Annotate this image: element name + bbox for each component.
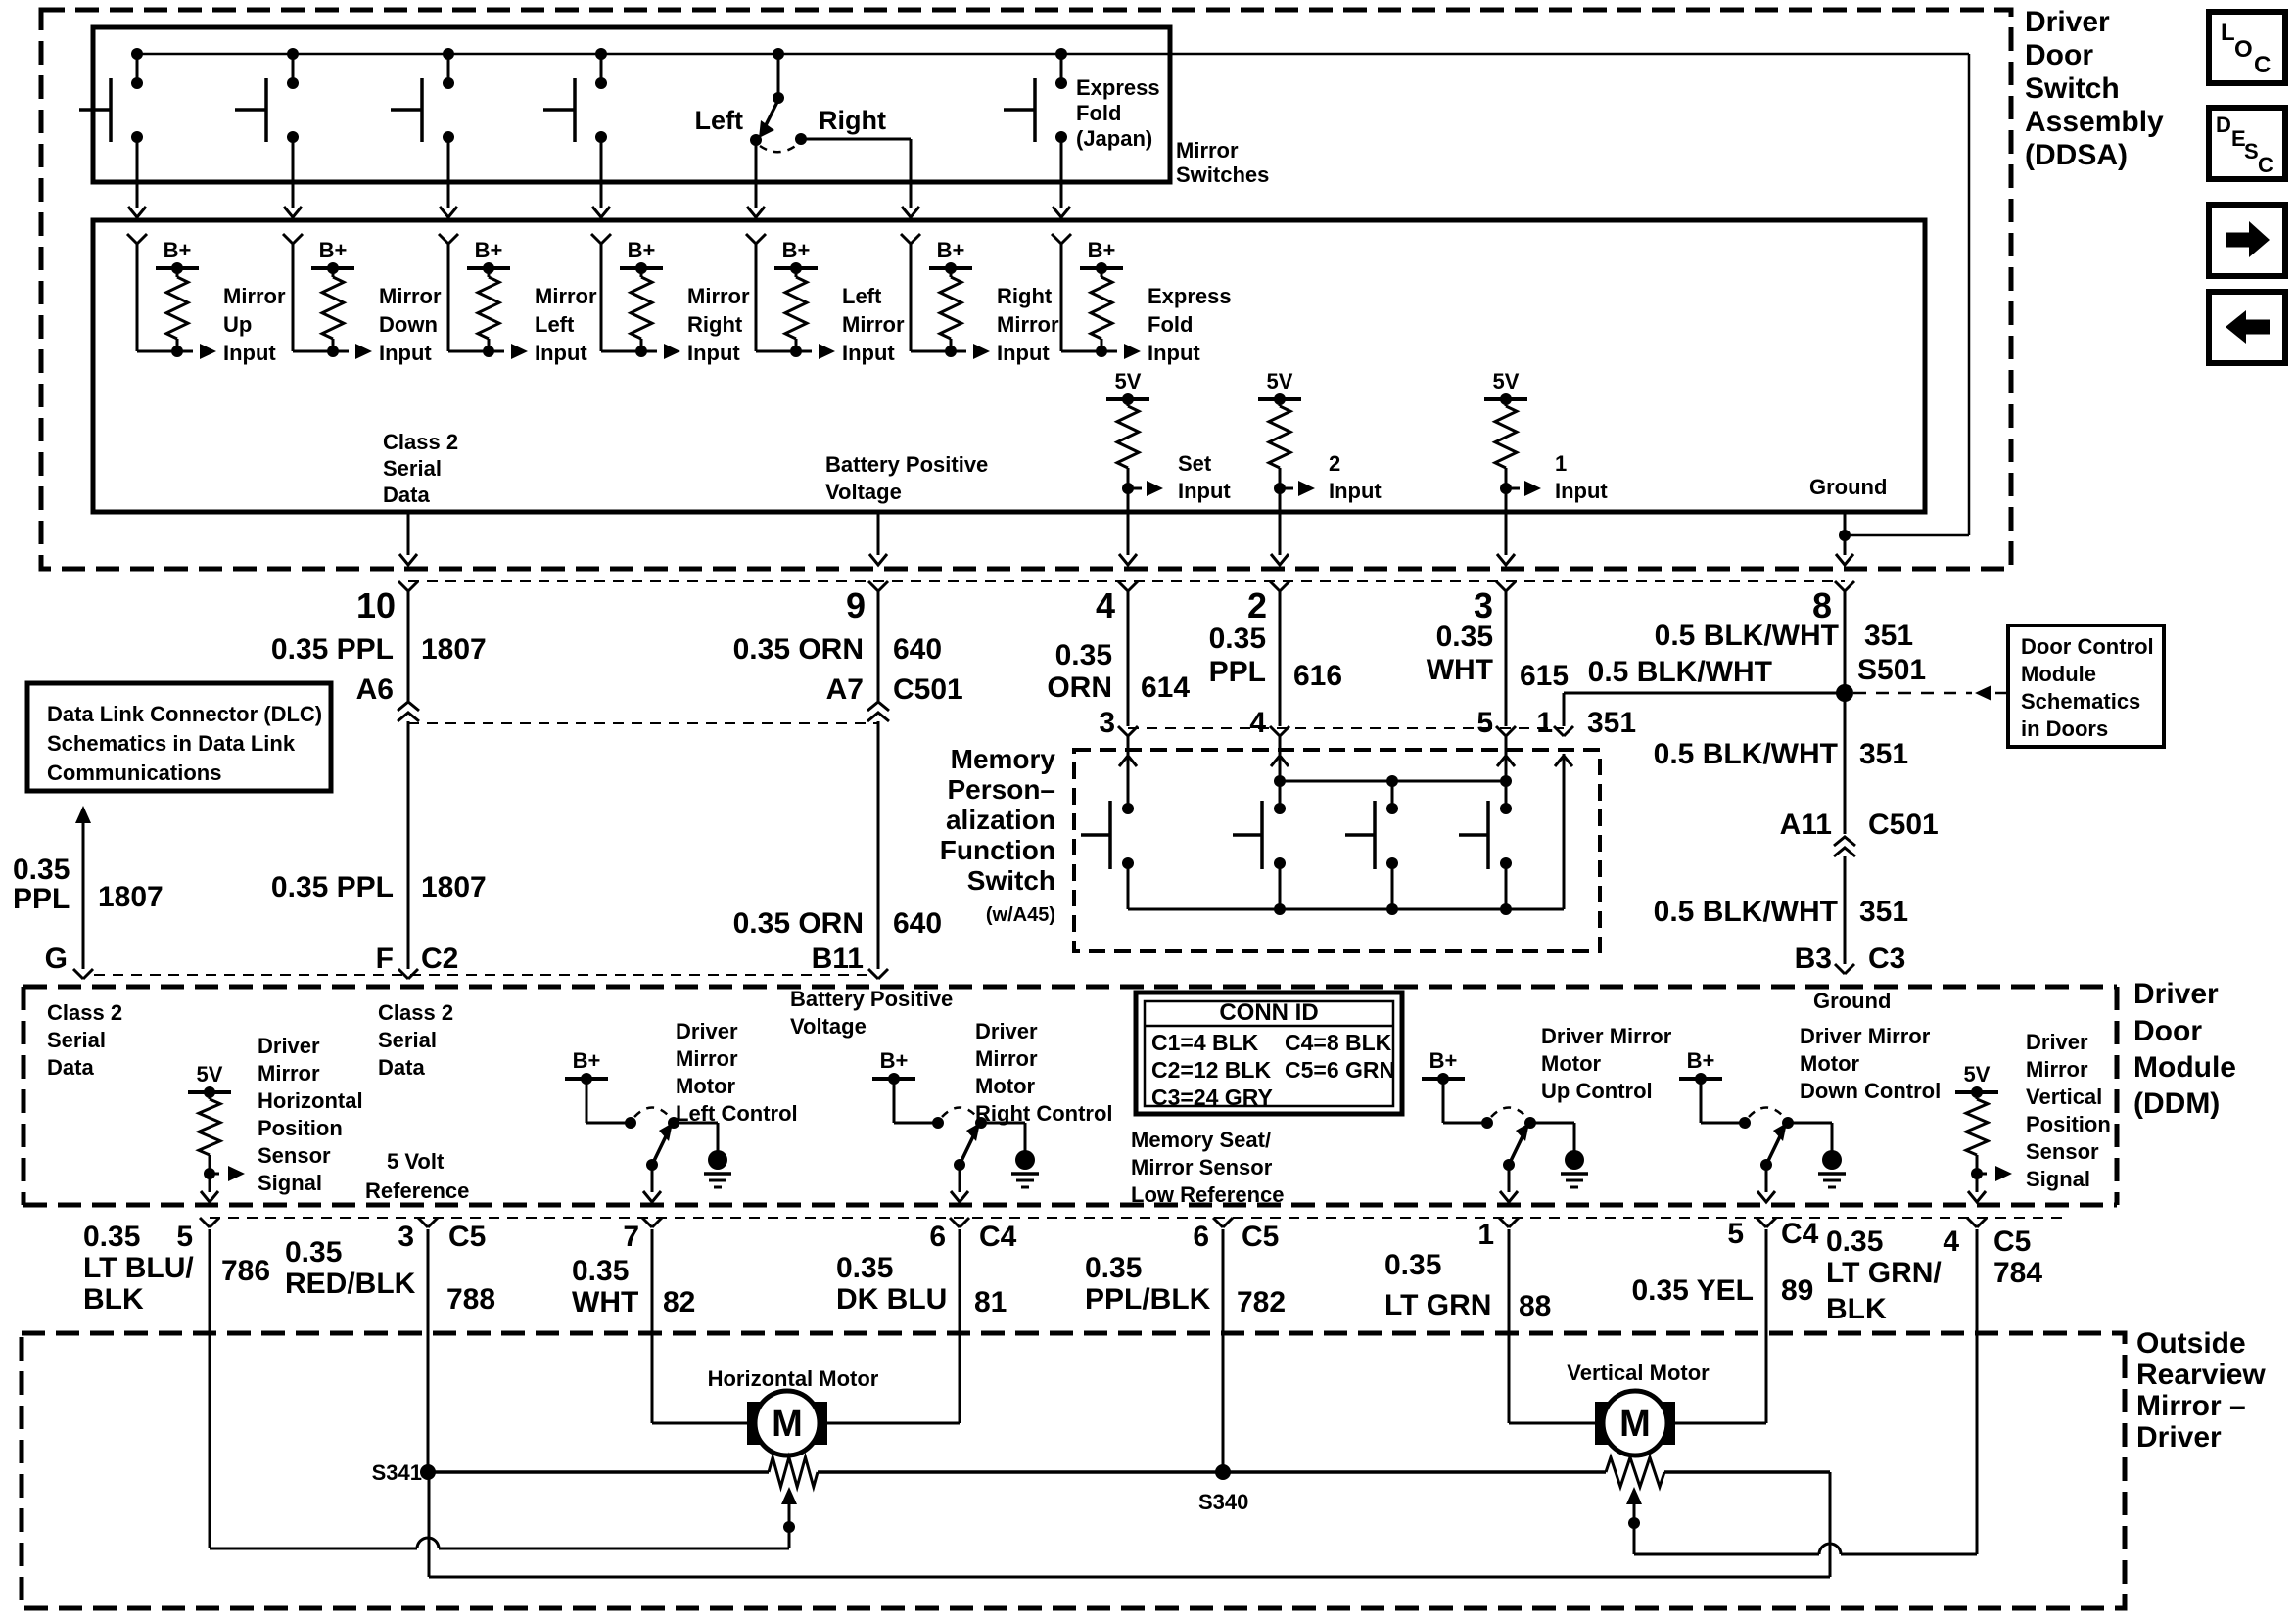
reference loop right leg bbox=[1829, 1472, 1832, 1577]
svg-text:3: 3 bbox=[1099, 707, 1115, 739]
C501 pin connector at x=1152 bbox=[1118, 726, 1138, 736]
LOC icon bbox=[2209, 12, 2285, 83]
svg-text:Mirror: Mirror bbox=[975, 1046, 1038, 1071]
svg-text:Input: Input bbox=[379, 341, 432, 365]
svg-text:Input: Input bbox=[1178, 479, 1231, 503]
svg-text:2: 2 bbox=[1329, 451, 1340, 476]
svg-text:PPL/BLK: PPL/BLK bbox=[1085, 1283, 1211, 1316]
wire 88 labels bbox=[1384, 1219, 1551, 1322]
ground wire 351 upper segment bbox=[1844, 591, 1847, 693]
wire 82 labels bbox=[572, 1221, 695, 1318]
Right Mirror Input label bbox=[997, 284, 1059, 365]
svg-text:9: 9 bbox=[846, 585, 866, 625]
splice S501 bbox=[1836, 684, 1853, 702]
svg-text:7: 7 bbox=[623, 1221, 639, 1253]
svg-text:RED/BLK: RED/BLK bbox=[285, 1268, 416, 1300]
CONN ID rows bbox=[1151, 1030, 1395, 1110]
Outside Rearview Mirror dashed boundary bbox=[22, 1333, 2125, 1608]
svg-text:10: 10 bbox=[356, 585, 396, 625]
Battery Positive Voltage label (DDM) bbox=[790, 987, 953, 1039]
svg-text:Class 2: Class 2 bbox=[383, 430, 458, 454]
reference loop left leg bbox=[428, 1472, 431, 1577]
svg-text:0.35: 0.35 bbox=[13, 854, 70, 886]
svg-text:616: 616 bbox=[1293, 660, 1342, 692]
wire 640 lower segment bbox=[877, 721, 880, 969]
svg-text:Right Control: Right Control bbox=[975, 1101, 1113, 1126]
svg-text:B+: B+ bbox=[880, 1048, 909, 1073]
mirror switch S1 (momentary) bbox=[79, 48, 146, 217]
Ground label (DDM) bbox=[1813, 989, 1891, 1013]
memory switch riser 614 bbox=[1127, 736, 1130, 808]
svg-text:786: 786 bbox=[221, 1255, 270, 1287]
svg-text:C4=8 BLK: C4=8 BLK bbox=[1285, 1030, 1392, 1055]
5V pull-up resistor Set input bbox=[1106, 369, 1163, 565]
svg-text:Battery Positive: Battery Positive bbox=[790, 987, 953, 1011]
svg-text:Left: Left bbox=[842, 284, 882, 308]
svg-text:5V: 5V bbox=[197, 1062, 223, 1086]
A6 label bbox=[356, 673, 394, 706]
C3 pin connector bbox=[1835, 964, 1854, 974]
0.35 ORN 640 label (upper) bbox=[733, 633, 942, 666]
DDSA pin 10 bbox=[356, 581, 418, 625]
pull-up resistor input column Right Mirror bbox=[901, 234, 990, 359]
svg-text:351: 351 bbox=[1859, 896, 1908, 928]
svg-text:Driver Mirror: Driver Mirror bbox=[1541, 1024, 1672, 1048]
svg-text:WHT: WHT bbox=[1427, 654, 1493, 686]
svg-text:Data: Data bbox=[378, 1055, 425, 1080]
DDM pin connector at x=437 bbox=[418, 1218, 438, 1227]
svg-text:351: 351 bbox=[1864, 620, 1913, 652]
svg-text:Class 2: Class 2 bbox=[47, 1000, 122, 1025]
svg-text:Right: Right bbox=[687, 312, 743, 337]
svg-text:Position: Position bbox=[258, 1116, 343, 1140]
wire 786 pin label bbox=[176, 1221, 193, 1253]
svg-text:Driver: Driver bbox=[2133, 978, 2219, 1010]
svg-text:4: 4 bbox=[1096, 585, 1115, 625]
Driver Mirror Motor Up Control label bbox=[1541, 1024, 1672, 1103]
DDM pin connector at x=214 bbox=[200, 1218, 219, 1227]
svg-text:Input: Input bbox=[223, 341, 276, 365]
DDSA label bbox=[2025, 6, 2164, 171]
svg-text:LT GRN/: LT GRN/ bbox=[1826, 1257, 1942, 1289]
driver mirror motor down control switch bbox=[1679, 1048, 1846, 1202]
C501 dashed connector line (left) bbox=[408, 722, 878, 724]
C501 inline connector A11 bbox=[1834, 837, 1855, 856]
svg-text:Vertical Motor: Vertical Motor bbox=[1567, 1361, 1710, 1385]
2 Input label bbox=[1329, 451, 1382, 503]
svg-text:351: 351 bbox=[1587, 707, 1636, 739]
wire 614 segment bbox=[1127, 591, 1130, 726]
svg-text:782: 782 bbox=[1237, 1286, 1286, 1318]
Memory Personalization Function Switch label bbox=[940, 744, 1056, 926]
svg-text:C2: C2 bbox=[421, 943, 458, 975]
C501 inline connector A7 bbox=[867, 702, 889, 721]
wire 784 run bbox=[1634, 1229, 1977, 1554]
svg-text:1: 1 bbox=[1555, 451, 1567, 476]
svg-text:(DDM): (DDM) bbox=[2133, 1087, 2220, 1120]
memory bottom bus bbox=[1128, 903, 1564, 915]
memory pushbutton switch M3 bbox=[1345, 801, 1398, 909]
C501 pin connector at x=1597 bbox=[1554, 726, 1573, 736]
wire 788 run bbox=[427, 1229, 430, 1472]
svg-text:Driver: Driver bbox=[258, 1034, 320, 1058]
express fold switch bbox=[1004, 48, 1070, 217]
svg-text:C2=12 BLK: C2=12 BLK bbox=[1151, 1057, 1271, 1083]
B11 label bbox=[812, 943, 864, 975]
pull-up resistor input column Mirror Left bbox=[439, 234, 528, 359]
0.35 ORN 640 label (lower) bbox=[733, 907, 942, 940]
svg-text:5: 5 bbox=[1476, 707, 1493, 739]
svg-text:615: 615 bbox=[1520, 660, 1569, 692]
svg-text:Right: Right bbox=[819, 106, 886, 135]
svg-text:O: O bbox=[2234, 36, 2253, 63]
pin 5 label C501 bbox=[1476, 707, 1493, 739]
svg-text:CONN ID: CONN ID bbox=[1219, 999, 1318, 1026]
svg-text:3: 3 bbox=[1474, 585, 1493, 625]
DDM pin connector at x=2019 bbox=[1967, 1218, 1987, 1227]
Left label bbox=[695, 106, 744, 135]
svg-text:Door Control: Door Control bbox=[2021, 634, 2154, 659]
svg-text:Low Reference: Low Reference bbox=[1131, 1182, 1285, 1207]
svg-text:G: G bbox=[45, 943, 68, 975]
svg-text:Mirror –: Mirror – bbox=[2136, 1390, 2246, 1422]
DDM pin connector at x=1249 bbox=[1213, 1218, 1233, 1227]
svg-text:1807: 1807 bbox=[98, 881, 164, 913]
driver mirror motor right control switch bbox=[872, 1048, 1039, 1202]
svg-text:Sensor: Sensor bbox=[258, 1143, 331, 1168]
Set Input label bbox=[1178, 451, 1231, 503]
svg-text:WHT: WHT bbox=[572, 1286, 638, 1318]
svg-text:Express: Express bbox=[1148, 284, 1232, 308]
svg-text:Motor: Motor bbox=[975, 1074, 1036, 1098]
svg-text:DK BLU: DK BLU bbox=[836, 1283, 947, 1316]
svg-text:PPL: PPL bbox=[1209, 656, 1266, 688]
wire 782 run bbox=[1222, 1229, 1225, 1472]
Driver Door Module dashed boundary top bbox=[23, 985, 2117, 990]
svg-text:Schematics: Schematics bbox=[2021, 689, 2140, 714]
0.35 PPL 1807 label (lower) bbox=[271, 871, 487, 903]
F pin connector bbox=[398, 969, 418, 979]
svg-text:640: 640 bbox=[893, 907, 942, 940]
svg-text:1807: 1807 bbox=[421, 633, 487, 666]
memory pushbutton switch M1 bbox=[1081, 801, 1134, 909]
forward arrow icon bbox=[2209, 205, 2285, 276]
svg-text:Memory Seat/: Memory Seat/ bbox=[1131, 1128, 1271, 1152]
ground wire 351 mid segment bbox=[1844, 693, 1847, 834]
svg-text:0.35: 0.35 bbox=[1209, 623, 1266, 655]
svg-text:C5: C5 bbox=[448, 1221, 486, 1253]
DDSA connector face dashed line bbox=[408, 580, 1845, 582]
svg-text:Input: Input bbox=[535, 341, 587, 365]
svg-text:Horizontal Motor: Horizontal Motor bbox=[708, 1366, 879, 1391]
DDM pin connector at x=980 bbox=[950, 1218, 969, 1227]
pull-up resistor input column Left Mirror bbox=[746, 234, 835, 359]
svg-text:Sensor: Sensor bbox=[2026, 1139, 2099, 1164]
Class 2 Serial Data label (DDM left) bbox=[47, 1000, 122, 1080]
svg-text:B+: B+ bbox=[937, 238, 965, 262]
Driver Door Switch Assembly (DDSA) dashed boundary bbox=[41, 10, 2011, 569]
horizontal position pot bbox=[769, 1457, 818, 1487]
hop over reference loop bbox=[1819, 1544, 1841, 1554]
svg-text:Driver: Driver bbox=[975, 1019, 1038, 1043]
CONN ID title bbox=[1219, 999, 1318, 1026]
svg-text:L: L bbox=[2221, 20, 2235, 46]
svg-text:Mirror: Mirror bbox=[2026, 1057, 2088, 1082]
CONN ID box bbox=[1136, 993, 1402, 1114]
svg-text:0.35: 0.35 bbox=[285, 1236, 342, 1269]
Express Fold Input label bbox=[1148, 284, 1232, 365]
svg-text:B11: B11 bbox=[812, 943, 864, 975]
1 Input label bbox=[1555, 451, 1608, 503]
memory top bus bbox=[1274, 775, 1512, 787]
svg-text:C5: C5 bbox=[1242, 1221, 1279, 1253]
svg-text:Ground: Ground bbox=[1813, 989, 1891, 1013]
memory pushbutton switch M2 bbox=[1233, 801, 1286, 909]
svg-text:C4: C4 bbox=[1781, 1218, 1819, 1250]
svg-text:Left: Left bbox=[695, 106, 744, 135]
svg-text:6: 6 bbox=[929, 1221, 946, 1253]
class 2 serial data pin wire bbox=[399, 512, 417, 565]
Mirror Switches box bbox=[93, 27, 1170, 182]
svg-text:1: 1 bbox=[1536, 707, 1553, 739]
0.35 PPL 1807 label (DLC) bbox=[13, 854, 164, 915]
C501 dashed connector line (pins 3-1) bbox=[1128, 727, 1564, 729]
Door Control Module Schematics in Doors text bbox=[2021, 634, 2154, 741]
5V pull-up resistor 2 input bbox=[1258, 369, 1315, 565]
Driver Mirror Horizontal Position Sensor Signal label bbox=[258, 1034, 363, 1195]
svg-text:Signal: Signal bbox=[2026, 1167, 2090, 1191]
svg-text:Module: Module bbox=[2021, 662, 2096, 686]
Battery Positive Voltage label (DDSA) bbox=[825, 452, 988, 504]
ground pin wire bbox=[1836, 510, 1853, 565]
svg-text:Down: Down bbox=[379, 312, 438, 337]
svg-text:Left Control: Left Control bbox=[676, 1101, 798, 1126]
svg-text:88: 88 bbox=[1519, 1290, 1551, 1322]
pull-up resistor input column Mirror Up bbox=[127, 234, 216, 359]
svg-text:Communications: Communications bbox=[47, 761, 221, 785]
0.35 PPL 1807 label (upper) bbox=[271, 633, 487, 666]
svg-text:Up: Up bbox=[223, 312, 252, 337]
svg-text:C: C bbox=[2258, 153, 2273, 177]
mirror switch S3 (momentary) bbox=[391, 48, 457, 217]
svg-text:Input: Input bbox=[687, 341, 740, 365]
svg-text:Mirror: Mirror bbox=[997, 312, 1059, 337]
svg-text:BLK: BLK bbox=[1826, 1293, 1887, 1325]
svg-text:C3: C3 bbox=[1868, 943, 1905, 975]
wire 88 run bbox=[1509, 1229, 1596, 1423]
svg-text:Up Control: Up Control bbox=[1541, 1079, 1653, 1103]
svg-text:5V: 5V bbox=[1115, 369, 1142, 393]
svg-text:B+: B+ bbox=[782, 238, 811, 262]
Memory Seat Mirror Sensor Low Reference label bbox=[1131, 1128, 1285, 1207]
svg-text:0.35: 0.35 bbox=[1826, 1225, 1883, 1258]
svg-text:Right: Right bbox=[997, 284, 1053, 308]
svg-text:C5=6 GRN: C5=6 GRN bbox=[1285, 1057, 1395, 1083]
svg-text:Rearview: Rearview bbox=[2136, 1359, 2266, 1391]
svg-text:Vertical: Vertical bbox=[2026, 1085, 2102, 1109]
svg-text:M: M bbox=[1619, 1404, 1651, 1445]
svg-text:C3=24 GRY: C3=24 GRY bbox=[1151, 1085, 1273, 1110]
svg-text:Motor: Motor bbox=[676, 1074, 736, 1098]
svg-text:2: 2 bbox=[1247, 585, 1267, 625]
svg-text:B+: B+ bbox=[1088, 238, 1116, 262]
right-position wire bbox=[801, 139, 919, 217]
0.35 PPL 616 label bbox=[1209, 623, 1342, 692]
horizontal pot wiper bbox=[781, 1487, 797, 1548]
svg-text:ORN: ORN bbox=[1047, 671, 1112, 704]
svg-text:S501: S501 bbox=[1857, 654, 1926, 686]
5 Volt Reference label bbox=[365, 1149, 469, 1203]
svg-text:Ground: Ground bbox=[1809, 475, 1887, 499]
A11 C501 labels bbox=[1780, 808, 1939, 841]
Mirror Switches label bbox=[1176, 138, 1269, 187]
svg-text:1807: 1807 bbox=[421, 871, 487, 903]
horizontal motor bbox=[747, 1391, 827, 1455]
door control module pointer bbox=[1853, 685, 2008, 701]
svg-text:Switches: Switches bbox=[1176, 162, 1269, 187]
wire 615 segment bbox=[1505, 591, 1508, 726]
DESC icon bbox=[2209, 108, 2285, 179]
DDSA pin 8 bbox=[1812, 581, 1854, 625]
svg-text:0.35: 0.35 bbox=[836, 1252, 893, 1284]
Mirror Down Input label bbox=[379, 284, 442, 365]
Mirror Right Input label bbox=[687, 284, 750, 365]
Left Mirror Input label bbox=[842, 284, 905, 365]
0.5 BLK/WHT 351 label (mid) bbox=[1654, 738, 1908, 770]
5V pull-up resistor 1 input bbox=[1484, 369, 1541, 565]
svg-text:Mirror: Mirror bbox=[676, 1046, 738, 1071]
svg-text:Driver: Driver bbox=[2026, 1030, 2088, 1054]
svg-text:Schematics in Data Link: Schematics in Data Link bbox=[47, 731, 296, 756]
svg-text:Function: Function bbox=[940, 835, 1055, 865]
bus riser to ground junction bbox=[1968, 54, 1971, 535]
svg-text:Serial: Serial bbox=[378, 1028, 437, 1052]
svg-text:3: 3 bbox=[398, 1221, 414, 1253]
DDM label bbox=[2133, 978, 2236, 1120]
vertical pot wiper bbox=[1626, 1487, 1642, 1554]
svg-text:Serial: Serial bbox=[383, 456, 442, 481]
Outside Rearview Mirror label bbox=[2136, 1327, 2266, 1454]
svg-text:5 Volt: 5 Volt bbox=[387, 1149, 445, 1174]
svg-text:Door: Door bbox=[2025, 39, 2093, 71]
Class 2 Serial Data label (DDSA) bbox=[383, 430, 458, 507]
wire 81 labels bbox=[836, 1221, 1017, 1318]
svg-text:Horizontal: Horizontal bbox=[258, 1088, 363, 1113]
svg-text:Outside: Outside bbox=[2136, 1327, 2246, 1360]
memory switch riser 615 bbox=[1505, 736, 1508, 781]
svg-text:Mirror: Mirror bbox=[687, 284, 750, 308]
svg-text:Mirror: Mirror bbox=[258, 1061, 320, 1086]
DDM connector face dashed line bbox=[210, 1217, 2066, 1219]
vertical motor bbox=[1595, 1391, 1675, 1455]
left/right selector switch bbox=[747, 48, 807, 217]
splice S341 bbox=[372, 1460, 436, 1485]
svg-text:C5: C5 bbox=[1993, 1225, 2031, 1258]
svg-text:0.35 PPL: 0.35 PPL bbox=[271, 633, 394, 666]
G label bbox=[45, 943, 68, 975]
svg-text:Mirror: Mirror bbox=[842, 312, 905, 337]
switch common bus wire bbox=[136, 53, 1969, 56]
pin 3 label C501 bbox=[1099, 707, 1115, 739]
G pin connector bbox=[73, 969, 93, 979]
svg-text:Mirror: Mirror bbox=[223, 284, 286, 308]
pin 4 label C501 bbox=[1249, 707, 1266, 739]
svg-text:D: D bbox=[2216, 113, 2231, 137]
svg-text:Reference: Reference bbox=[365, 1178, 469, 1203]
svg-text:1: 1 bbox=[1477, 1219, 1494, 1251]
svg-text:A11: A11 bbox=[1780, 808, 1832, 841]
Driver Door Module dashed boundary bottom bbox=[23, 1203, 2117, 1208]
Express Fold (Japan) label bbox=[1076, 75, 1160, 151]
svg-text:0.35: 0.35 bbox=[83, 1221, 140, 1253]
sensor reference line bbox=[429, 1470, 1830, 1474]
horizontal position sensor 5V resistor bbox=[188, 1062, 245, 1202]
svg-text:B+: B+ bbox=[573, 1048, 601, 1073]
svg-text:0.35: 0.35 bbox=[1384, 1249, 1441, 1281]
svg-text:Switch: Switch bbox=[967, 865, 1055, 896]
Door Control Module Schematics in Doors box bbox=[2008, 625, 2164, 747]
svg-text:Door: Door bbox=[2133, 1015, 2202, 1047]
DDSA pin 9 bbox=[846, 581, 888, 625]
vertical position pot bbox=[1606, 1457, 1664, 1487]
svg-text:B+: B+ bbox=[319, 238, 348, 262]
svg-text:Data Link Connector (DLC): Data Link Connector (DLC) bbox=[47, 702, 322, 726]
svg-text:Person–: Person– bbox=[948, 774, 1056, 805]
svg-text:Data: Data bbox=[47, 1055, 94, 1080]
svg-text:C501: C501 bbox=[1868, 808, 1939, 841]
svg-text:(DDSA): (DDSA) bbox=[2025, 139, 2128, 171]
svg-text:Fold: Fold bbox=[1148, 312, 1193, 337]
wire 786 run bbox=[210, 1229, 789, 1548]
vertical position sensor 5V resistor bbox=[1955, 1062, 2012, 1202]
svg-text:Motor: Motor bbox=[1541, 1051, 1602, 1076]
wire 89 run bbox=[1675, 1229, 1766, 1423]
svg-text:Position: Position bbox=[2026, 1112, 2111, 1136]
pull-up resistor input column Express Fold bbox=[1052, 234, 1141, 359]
C501 pin connector at x=1538 bbox=[1496, 726, 1516, 736]
svg-text:0.35: 0.35 bbox=[572, 1255, 629, 1287]
svg-text:B+: B+ bbox=[628, 238, 656, 262]
svg-text:Voltage: Voltage bbox=[790, 1014, 867, 1039]
Data Link Connector text bbox=[47, 702, 322, 785]
svg-text:Mirror Sensor: Mirror Sensor bbox=[1131, 1155, 1273, 1179]
memory pushbutton switch M4 bbox=[1459, 801, 1512, 909]
A7 C501 labels bbox=[826, 673, 963, 706]
wire 784 labels bbox=[1826, 1225, 2042, 1325]
svg-text:Voltage: Voltage bbox=[825, 480, 902, 504]
DDSA pin 4 bbox=[1096, 581, 1138, 625]
svg-text:0.35 YEL: 0.35 YEL bbox=[1631, 1274, 1754, 1307]
svg-text:82: 82 bbox=[663, 1286, 695, 1318]
svg-text:Express: Express bbox=[1076, 75, 1160, 100]
svg-text:C1=4 BLK: C1=4 BLK bbox=[1151, 1030, 1259, 1055]
wire 616 segment bbox=[1279, 591, 1282, 726]
svg-text:0.35: 0.35 bbox=[1436, 621, 1493, 653]
svg-text:Mirror: Mirror bbox=[1176, 138, 1239, 162]
svg-text:Mirror: Mirror bbox=[535, 284, 597, 308]
svg-text:Driver: Driver bbox=[676, 1019, 738, 1043]
wire 81 run bbox=[827, 1229, 960, 1423]
svg-text:81: 81 bbox=[974, 1286, 1007, 1318]
svg-text:4: 4 bbox=[1249, 707, 1266, 739]
svg-text:S: S bbox=[2244, 139, 2259, 163]
svg-text:5: 5 bbox=[176, 1221, 193, 1253]
mirror switch S4 (momentary) bbox=[543, 48, 610, 217]
wire 89 labels bbox=[1631, 1218, 1818, 1307]
svg-text:788: 788 bbox=[446, 1283, 495, 1316]
back arrow icon bbox=[2209, 292, 2285, 363]
svg-text:Input: Input bbox=[1329, 479, 1382, 503]
